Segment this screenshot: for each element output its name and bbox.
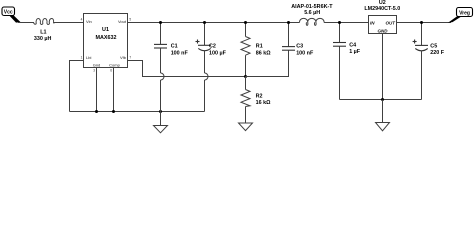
svg-text:Gnd: Gnd [93,62,101,67]
svg-text:86 kΩ: 86 kΩ [256,50,271,56]
U1 pin number 7 (Vfb) [129,55,131,59]
svg-text:1: 1 [81,55,83,59]
U1 pin name Lbi [86,55,91,60]
capacitor C5 (polarized) [413,23,445,100]
net flag Vcc [2,7,21,23]
junction C1/bus [159,110,162,113]
svg-text:Vreg: Vreg [459,10,470,16]
resistor R1 [241,23,271,77]
U2 pin name IN [370,20,375,25]
svg-text:OUT: OUT [386,20,397,25]
svg-text:5.6 µH: 5.6 µH [304,10,320,16]
junction C1/rail [159,21,162,24]
svg-text:IN: IN [370,20,375,25]
junction Gnd/bus [95,110,98,113]
ground bus right [340,99,422,101]
regulator U2 LM2940CT-5.0 body [364,0,400,33]
capacitor C2 (polarized) [196,23,227,112]
U1 pin name Gnd [93,62,101,67]
junction C2/rail [203,21,206,24]
svg-text:4: 4 [81,18,83,22]
svg-text:3: 3 [93,69,95,73]
U1 pin number 1 (Lbi) [81,55,83,59]
junction U2 GND/bus [381,98,384,101]
U2 pin name GND [378,29,389,34]
ground bus left [70,111,205,113]
svg-text:Lbi: Lbi [86,55,91,60]
svg-text:L1: L1 [40,30,46,36]
ground (left bus) [154,112,168,133]
wire U1 Gnd pin down to ground bus [96,68,98,112]
svg-text:C3: C3 [296,43,303,49]
U1 pin name Vin [86,19,92,24]
node R1/R2/Vfb [244,75,247,78]
inductor L1 [34,18,55,42]
svg-text:Vout: Vout [118,19,127,24]
capacitor C1 [154,23,188,112]
svg-text:100 nF: 100 nF [296,50,314,56]
wire U1 Vout to AIAP (top rail) [128,22,300,24]
wire U1 Lbi pin to ground bus [70,61,84,112]
svg-text:100 nF: 100 nF [171,50,189,56]
op-amp U1 MAX632 body [84,14,128,68]
ground (R2) [239,123,253,131]
svg-text:C5: C5 [430,43,437,49]
wire U1 Vfb feedback to R1/R2 node [128,61,246,77]
svg-text:C2: C2 [209,43,216,49]
svg-text:Vin: Vin [86,19,92,24]
svg-text:7: 7 [129,55,131,59]
U1 pin number 5 (Vout) [129,18,131,22]
svg-text:GND: GND [378,29,389,34]
wire U2 OUT to Vreg [397,22,452,24]
inductor AIAP-01-5R6K-T [291,4,333,25]
U2 pin name OUT [386,20,397,25]
resistor R2 [241,77,271,124]
svg-text:6: 6 [110,69,112,73]
U1 pin number 4 (Vin) [81,18,83,22]
U1 pin number 6 (Comp) [110,69,112,73]
svg-text:C4: C4 [349,43,356,49]
U1 pin number 3 (Gnd) [93,69,95,73]
svg-text:R1: R1 [256,43,263,49]
junction R1/rail [244,21,247,24]
svg-text:100 µF: 100 µF [209,50,227,56]
svg-text:Vcc: Vcc [4,10,13,16]
ground (right bus) [376,100,390,131]
junction C5/rail [420,21,423,24]
svg-text:330 µH: 330 µH [34,36,52,42]
U1 pin name Vfb [120,55,127,60]
svg-text:5: 5 [129,18,131,22]
wire U1 Comp pin down to ground bus [113,68,115,112]
U1 pin name Vout [118,19,127,24]
wire L1 to U1 Vin [54,22,84,24]
svg-text:Comp: Comp [109,62,120,67]
wire Vcc to L1 [18,22,34,24]
net flag Vreg [448,8,473,23]
svg-text:Vfb: Vfb [120,55,127,60]
U1 pin name Comp [109,62,120,67]
svg-text:16 kΩ: 16 kΩ [256,100,271,106]
svg-text:R2: R2 [256,93,263,99]
junction Comp/bus [112,110,115,113]
svg-text:LM2940CT-5.0: LM2940CT-5.0 [364,6,400,12]
junction C3/rail [287,21,290,24]
wire U2 GND down to right bus [382,34,384,100]
junction C4/rail [338,21,341,24]
svg-text:220 F: 220 F [430,50,444,56]
svg-text:MAX632: MAX632 [96,35,117,41]
svg-text:C1: C1 [171,43,178,49]
svg-text:1 µF: 1 µF [349,49,361,55]
capacitor C4 [333,23,361,100]
wire AIAP to U2 IN [324,22,368,24]
capacitor C3 [246,23,314,77]
svg-text:U1: U1 [102,27,109,33]
